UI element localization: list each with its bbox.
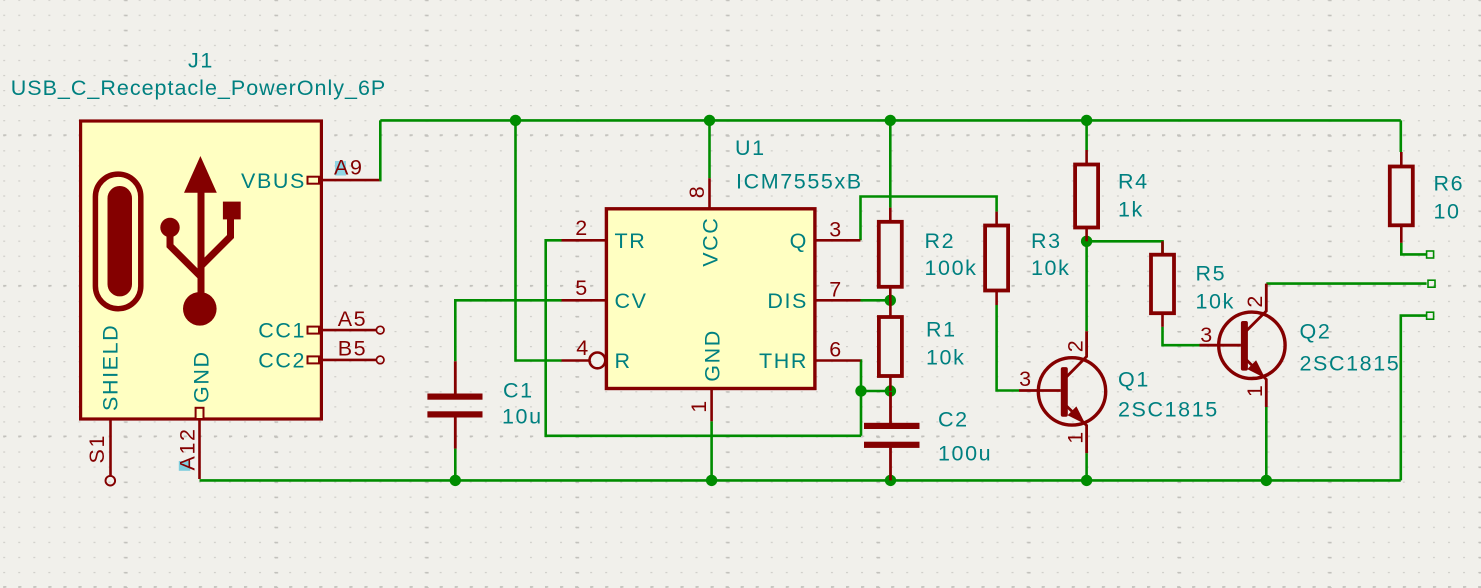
svg-text:TR: TR bbox=[615, 229, 647, 253]
svg-text:Q1: Q1 bbox=[1118, 368, 1150, 392]
transistor Q2 emitter arrow bbox=[1247, 360, 1265, 378]
transistor Q1 collector pin bbox=[1066, 331, 1087, 377]
resistor R2 top lead bbox=[889, 208, 892, 222]
U1 pin 7 DIS line bbox=[815, 299, 861, 302]
capacitor C1 top plate bbox=[427, 394, 482, 400]
wire top VCC rail bbox=[380, 119, 1401, 122]
resistor R6 body bbox=[1390, 167, 1413, 226]
svg-text:10: 10 bbox=[1434, 199, 1461, 223]
op-amp U1 body bbox=[606, 209, 815, 389]
capacitor C1 bottom plate bbox=[427, 411, 482, 417]
wire R4 bottom to Q1 collector bbox=[1085, 241, 1088, 331]
U1 pin 4 R line bbox=[562, 359, 590, 362]
resistor R4 body bbox=[1075, 165, 1098, 228]
resistor R1 body bbox=[879, 317, 902, 376]
J1 pin CC1 open end circle bbox=[376, 326, 384, 334]
wire U1 GND pin 1 bbox=[710, 421, 713, 480]
U1 pin 5 CV line bbox=[562, 299, 607, 302]
wire bottom GND rail bbox=[200, 479, 1401, 482]
svg-text:2SC1815: 2SC1815 bbox=[1300, 351, 1401, 375]
svg-text:C2: C2 bbox=[938, 408, 969, 432]
wire VBUS vertical bbox=[378, 120, 381, 180]
U1 pin 3 Q line bbox=[815, 239, 861, 242]
resistor R6 bottom lead bbox=[1400, 226, 1403, 243]
J1 pin VBUS line bbox=[321, 179, 380, 182]
junction gnd rail at C1 bbox=[450, 475, 461, 486]
wire THR to R1 bottom link bbox=[861, 390, 890, 393]
svg-text:R3: R3 bbox=[1031, 229, 1062, 253]
svg-text:2: 2 bbox=[1064, 339, 1088, 353]
junction on rail at R4 bbox=[1081, 115, 1092, 126]
svg-text:DIS: DIS bbox=[767, 289, 808, 313]
resistor R3 body bbox=[985, 226, 1008, 291]
junction gnd rail at U1 bbox=[706, 475, 717, 486]
U1 pin 8 VCC line bbox=[708, 178, 711, 209]
U1 pin 4 invert bubble bbox=[590, 353, 606, 369]
wire C1 bottom bbox=[454, 449, 457, 481]
svg-text:U1: U1 bbox=[735, 136, 766, 160]
transistor Q2 emitter pin bbox=[1246, 359, 1266, 407]
svg-text:VBUS: VBUS bbox=[241, 169, 306, 193]
J1 pin GND entry square bbox=[196, 408, 204, 419]
wire VCC pin 8 bbox=[708, 120, 711, 178]
junction DIS node bbox=[885, 295, 896, 306]
svg-text:10k: 10k bbox=[926, 346, 965, 370]
wire ground return to output bbox=[1401, 316, 1427, 481]
resistor R4 top lead bbox=[1085, 150, 1088, 164]
junction THR node right at R1 bbox=[885, 385, 896, 396]
junction on rail at reset tap bbox=[510, 115, 521, 126]
transistor Q2 circle bbox=[1219, 312, 1285, 378]
USB trident bottom circle bbox=[183, 292, 217, 326]
wire Q pin 3 to R3 top bbox=[861, 197, 997, 241]
svg-text:R6: R6 bbox=[1434, 171, 1465, 195]
capacitor C2 top plate bbox=[864, 423, 920, 429]
J1 pin CC2 line bbox=[321, 359, 376, 362]
resistor R1 bottom lead bbox=[889, 376, 892, 391]
resistor R2 body bbox=[879, 222, 902, 287]
svg-text:A9: A9 bbox=[334, 156, 364, 180]
junction on rail at R2 bbox=[885, 115, 896, 126]
svg-text:R5: R5 bbox=[1196, 262, 1227, 286]
junction on rail at VCC pin bbox=[704, 115, 715, 126]
J1 pin A12 ERC marker bbox=[179, 461, 191, 471]
junction THR node left bbox=[855, 385, 866, 396]
svg-text:ICM7555xB: ICM7555xB bbox=[736, 169, 863, 193]
svg-text:C1: C1 bbox=[503, 378, 534, 402]
svg-text:3: 3 bbox=[829, 217, 843, 241]
J1 pin GND line bbox=[198, 419, 201, 479]
svg-text:CC1: CC1 bbox=[258, 319, 306, 343]
transistor Q1 emitter pin bbox=[1066, 406, 1087, 454]
wire R3 bottom to Q1 base bbox=[997, 305, 1019, 391]
wire Q1 emitter to rail bbox=[1085, 453, 1088, 480]
svg-text:100u: 100u bbox=[938, 442, 992, 466]
U1 pin 1 GND line bbox=[710, 389, 713, 422]
wire R6 bottom to output bbox=[1401, 243, 1426, 255]
wire TR pin 2 to bottom run bbox=[546, 240, 861, 435]
svg-text:VCC: VCC bbox=[698, 217, 722, 267]
J1 pin CC2 open end circle bbox=[376, 356, 384, 364]
svg-text:2SC1815: 2SC1815 bbox=[1118, 397, 1219, 421]
J1 pin CC2 entry square bbox=[308, 356, 320, 363]
svg-text:6: 6 bbox=[829, 338, 843, 362]
wire DIS pin 7 to R2/R1 bbox=[861, 299, 891, 302]
wire R4 top from rail bbox=[1085, 120, 1088, 150]
resistor R4 bottom lead bbox=[1085, 228, 1088, 241]
svg-text:3: 3 bbox=[1200, 323, 1214, 347]
junction R4 bottom node bbox=[1081, 236, 1092, 247]
output square node GND out bbox=[1427, 312, 1434, 319]
svg-text:3: 3 bbox=[1019, 367, 1033, 391]
svg-text:2: 2 bbox=[575, 216, 589, 240]
transistor Q2 base bar bbox=[1241, 321, 1248, 371]
capacitor C1 bottom lead bbox=[454, 417, 457, 448]
svg-text:Q: Q bbox=[790, 229, 808, 253]
capacitor C2 top lead bbox=[889, 392, 892, 423]
svg-text:CC2: CC2 bbox=[258, 348, 306, 372]
USB-C receptacle outer stadium bbox=[95, 174, 140, 309]
output square node VOUT2 bbox=[1428, 280, 1435, 287]
svg-text:10u: 10u bbox=[502, 405, 543, 429]
resistor R5 body bbox=[1151, 255, 1174, 314]
wire reset tap from rail to pin 4 bbox=[516, 120, 562, 360]
resistor R6 top lead bbox=[1400, 152, 1403, 166]
J1 pin CC1 line bbox=[321, 329, 376, 332]
svg-text:R: R bbox=[615, 349, 632, 373]
USB-C receptacle inner pill bbox=[108, 186, 133, 296]
svg-text:R2: R2 bbox=[925, 229, 956, 253]
output square node VOUT1 bbox=[1427, 251, 1434, 258]
svg-text:10k: 10k bbox=[1031, 256, 1070, 280]
wire Q2 emitter to rail bbox=[1265, 407, 1268, 480]
svg-text:CV: CV bbox=[615, 289, 648, 313]
svg-text:1: 1 bbox=[1243, 384, 1267, 398]
transistor Q2 base pin bbox=[1200, 344, 1241, 347]
svg-text:S1: S1 bbox=[85, 434, 109, 464]
resistor R1 top lead bbox=[889, 300, 892, 316]
svg-text:4: 4 bbox=[576, 336, 590, 360]
transistor Q1 emitter arrow bbox=[1068, 406, 1086, 424]
svg-text:5: 5 bbox=[575, 276, 589, 300]
junction gnd rail at Q1 emitter bbox=[1081, 475, 1092, 486]
capacitor C2 bottom lead bbox=[889, 448, 892, 481]
transistor Q1 base pin bbox=[1019, 389, 1061, 392]
resistor R2 bottom lead bbox=[889, 287, 892, 300]
svg-text:1: 1 bbox=[1064, 430, 1088, 444]
svg-text:B5: B5 bbox=[338, 337, 368, 361]
svg-text:GND: GND bbox=[190, 350, 214, 403]
svg-text:7: 7 bbox=[829, 277, 843, 301]
svg-text:THR: THR bbox=[759, 349, 808, 373]
wire R6 top from rail bbox=[1400, 120, 1403, 152]
svg-text:Q2: Q2 bbox=[1300, 319, 1332, 343]
capacitor C1 top lead bbox=[454, 361, 457, 394]
svg-text:USB_C_Receptacle_PowerOnly_6P: USB_C_Receptacle_PowerOnly_6P bbox=[11, 76, 387, 100]
wire CV pin 5 to C1 bbox=[455, 300, 561, 361]
resistor R3 top lead bbox=[995, 212, 998, 225]
J1 pin VBUS entry square bbox=[308, 177, 320, 184]
transistor Q1 base bar bbox=[1061, 367, 1068, 417]
svg-text:1: 1 bbox=[687, 399, 711, 413]
svg-text:8: 8 bbox=[685, 185, 709, 199]
svg-text:A5: A5 bbox=[338, 307, 368, 331]
USB trident left branch line bbox=[170, 231, 201, 276]
svg-text:10k: 10k bbox=[1196, 289, 1235, 313]
J1 pin S1 open end circle bbox=[106, 476, 116, 486]
svg-text:100k: 100k bbox=[925, 256, 978, 280]
junction gnd rail at Q2 emitter bbox=[1261, 475, 1272, 486]
resistor R5 bottom lead bbox=[1161, 314, 1164, 327]
wire THR pin 6 down bbox=[859, 361, 862, 436]
resistor R3 bottom lead bbox=[995, 291, 998, 305]
transistor Q2 collector pin bbox=[1246, 284, 1266, 332]
resistor R5 top lead bbox=[1161, 241, 1164, 254]
svg-text:R1: R1 bbox=[926, 318, 957, 342]
USB trident right branch line bbox=[201, 218, 231, 267]
svg-text:1k: 1k bbox=[1118, 198, 1144, 222]
svg-text:GND: GND bbox=[700, 329, 724, 382]
wire R2 top from rail bbox=[889, 120, 892, 207]
J1 pin S1 line bbox=[109, 420, 112, 476]
connector J1 body bbox=[81, 121, 322, 419]
USB trident arrow bbox=[184, 156, 217, 193]
U1 pin 6 THR line bbox=[815, 359, 861, 362]
capacitor C2 bottom plate bbox=[864, 442, 920, 448]
svg-text:R4: R4 bbox=[1118, 170, 1149, 194]
J1 pin A9 ERC marker bbox=[335, 161, 346, 176]
wire R4 bottom to R5 top bbox=[1087, 241, 1163, 254]
J1 pin CC1 entry square bbox=[308, 327, 320, 334]
USB trident left branch circle bbox=[160, 218, 179, 237]
transistor Q1 circle bbox=[1038, 358, 1105, 425]
USB trident stem bbox=[198, 192, 205, 297]
svg-text:A12: A12 bbox=[176, 427, 200, 470]
junction gnd rail at C2 bbox=[885, 475, 896, 486]
USB trident right branch square bbox=[223, 202, 241, 220]
svg-text:J1: J1 bbox=[188, 49, 214, 73]
U1 pin 2 TR line bbox=[562, 239, 607, 242]
svg-text:2: 2 bbox=[1243, 294, 1267, 308]
svg-text:SHIELD: SHIELD bbox=[99, 324, 123, 411]
wire R5 bottom to Q2 base bbox=[1163, 327, 1200, 345]
wire Q2 collector to output bbox=[1266, 282, 1426, 285]
